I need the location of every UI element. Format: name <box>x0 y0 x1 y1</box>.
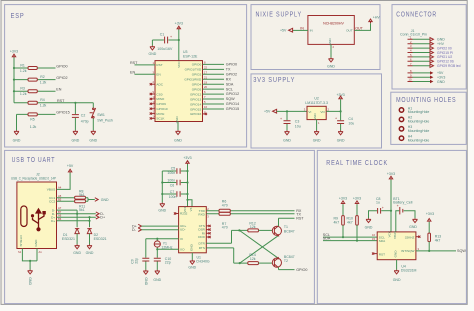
svg-text:32KHZ: 32KHZ <box>405 235 415 239</box>
pin names U3 left <box>156 63 167 121</box>
svg-text:GND: GND <box>153 278 161 282</box>
power +3V3 (3v3 out) <box>336 93 344 99</box>
wire T1 collector to RST <box>279 218 295 226</box>
svg-text:+3V3: +3V3 <box>10 50 18 54</box>
svg-text:SQW: SQW <box>226 97 235 101</box>
svg-text:1.2k: 1.2k <box>30 125 37 129</box>
wire U3 gnd <box>177 122 179 131</box>
svg-text:GPIO4: GPIO4 <box>192 83 202 87</box>
svg-text:R4: R4 <box>40 98 45 102</box>
svg-text:GND: GND <box>337 138 345 142</box>
svg-text:R2: R2 <box>40 75 45 79</box>
svg-text:C6: C6 <box>170 183 175 187</box>
svg-text:22: 22 <box>204 65 207 69</box>
svg-text:XO: XO <box>180 247 185 251</box>
node junction C3 <box>286 110 288 112</box>
svg-text:RST: RST <box>379 252 385 256</box>
wire OUT to HV <box>354 23 370 30</box>
svg-text:A7: A7 <box>58 206 62 210</box>
svg-text:17: 17 <box>204 70 207 74</box>
svg-text:GPIO0: GPIO0 <box>192 63 202 67</box>
wire C1 right <box>168 39 179 41</box>
ic U4 DS3231M body <box>377 232 416 272</box>
svg-text:RST: RST <box>57 99 65 103</box>
label GPIO2 <box>56 76 67 80</box>
svg-text:C4: C4 <box>348 117 353 121</box>
ground D1 <box>73 244 81 255</box>
svg-text:A1: A1 <box>39 250 43 254</box>
svg-text:ADC: ADC <box>156 83 163 87</box>
node junction SDA <box>356 240 358 242</box>
svg-text:C3: C3 <box>295 120 300 124</box>
pin R232 nc <box>174 212 179 214</box>
label +5V in <box>280 28 293 32</box>
node junction Dm <box>76 213 78 215</box>
node junction R12 in <box>238 229 240 231</box>
hole H4 <box>399 135 429 143</box>
svg-text:R3: R3 <box>20 87 25 91</box>
svg-text:GND: GND <box>158 209 166 213</box>
wire +5V to VI <box>277 110 307 112</box>
wire C3 stub <box>286 111 288 120</box>
power +3V3 rtc vcc <box>387 172 395 180</box>
svg-text:VBAT: VBAT <box>393 231 397 239</box>
svg-text:GPIO2: GPIO2 <box>226 72 237 76</box>
svg-text:RST: RST <box>130 61 138 65</box>
svg-text:C5: C5 <box>171 167 176 171</box>
svg-text:GPIO15: GPIO15 <box>190 107 201 111</box>
svg-text:470: 470 <box>222 226 228 230</box>
svg-text:GND: GND <box>13 139 21 143</box>
svg-text:U2: U2 <box>314 96 319 100</box>
battery BT1 <box>393 197 412 214</box>
svg-text:GPIO2 00: GPIO2 00 <box>437 46 452 50</box>
label RST uart <box>296 216 304 220</box>
svg-text:GND: GND <box>89 139 97 143</box>
wire C1 left to gnd <box>152 40 164 46</box>
wire U2 gnd <box>316 120 318 131</box>
wire R13 bottom <box>428 242 430 251</box>
svg-text:GND: GND <box>394 250 398 258</box>
svg-text:SDA: SDA <box>226 82 234 86</box>
wire R12 to T1 <box>259 229 273 231</box>
ic U1 CH340G body <box>179 207 210 264</box>
ground C10 <box>153 270 161 282</box>
svg-text:MISO: MISO <box>156 97 165 101</box>
crystal Y1 12MHz <box>154 239 173 250</box>
svg-text:CS0: CS0 <box>156 92 162 96</box>
wire UD- <box>142 229 179 231</box>
wire CC join <box>86 198 95 202</box>
wire VBUS to +5V <box>57 173 71 190</box>
node junction R14 in <box>239 262 241 264</box>
svg-text:GPIO0: GPIO0 <box>226 63 237 67</box>
svg-text:C2: C2 <box>81 113 86 117</box>
svg-text:RST: RST <box>296 216 304 220</box>
svg-text:GPIO9: GPIO9 <box>156 102 166 106</box>
label SQW <box>457 249 466 253</box>
svg-text:GND: GND <box>101 198 109 202</box>
ground C3 <box>283 130 291 142</box>
svg-text:SW1: SW1 <box>97 113 105 117</box>
wire EN to pin <box>130 70 155 74</box>
node junction R2 <box>13 79 15 81</box>
usb trident icon <box>31 209 46 231</box>
svg-text:GPIO0: GPIO0 <box>296 268 307 272</box>
svg-text:GPIO12: GPIO12 <box>190 92 201 96</box>
wire C2 to gnd <box>74 118 76 130</box>
diode D2 ESD321 <box>87 229 106 241</box>
ground C9 <box>143 270 148 286</box>
node junction C2 <box>74 102 76 104</box>
svg-text:CC2: CC2 <box>49 199 55 203</box>
svg-text:INT/SQW: INT/SQW <box>401 249 414 253</box>
svg-text:100n: 100n <box>167 171 175 175</box>
node junction R1 <box>13 67 15 69</box>
svg-text:CH340G: CH340G <box>196 260 210 264</box>
svg-text:VCC: VCC <box>183 205 187 212</box>
wire IN <box>293 26 308 30</box>
svg-text:EN: EN <box>56 88 61 92</box>
svg-text:22p: 22p <box>165 261 171 265</box>
svg-text:R1: R1 <box>20 63 25 67</box>
capacitor C2 <box>72 113 89 123</box>
resistor R3 <box>20 87 37 97</box>
svg-text:+: + <box>335 117 337 121</box>
wire shield join <box>22 249 37 270</box>
svg-text:19: 19 <box>204 80 207 84</box>
svg-text:10u: 10u <box>295 124 301 128</box>
svg-text:VCC: VCC <box>177 60 181 67</box>
ground J2 <box>28 270 33 286</box>
resistor R12 <box>248 222 259 232</box>
svg-text:IN: IN <box>300 26 304 30</box>
svg-text:VBUS: VBUS <box>47 188 55 192</box>
wire R10 bottom <box>356 225 358 241</box>
ground under SW1 <box>89 130 97 142</box>
pin numbers U3 right <box>204 61 207 114</box>
svg-text:+5V: +5V <box>67 164 74 168</box>
wire R1 row <box>14 67 56 69</box>
power +3V3 R13 <box>426 212 434 222</box>
svg-text:GPIO2: GPIO2 <box>192 73 202 77</box>
svg-text:T2: T2 <box>284 259 288 263</box>
svg-text:+5V: +5V <box>280 29 287 33</box>
svg-text:1u: 1u <box>376 201 380 205</box>
wire C2 stub <box>74 103 76 114</box>
wire SW1 stub <box>92 103 94 130</box>
label GPIO0 <box>56 64 67 68</box>
svg-text:SHIELD: SHIELD <box>19 235 23 247</box>
wire BT1 gnd <box>404 211 415 219</box>
label EN <box>56 88 61 92</box>
node junction Y1 bottom <box>156 248 158 250</box>
svg-text:ESP-12E: ESP-12E <box>183 55 198 59</box>
wire rtc vcc rail <box>390 180 392 232</box>
svg-text:UD-: UD- <box>180 228 186 232</box>
svg-text:DTR: DTR <box>199 241 206 245</box>
pin GPIO16 nc <box>203 113 208 115</box>
pin names U3 right <box>175 60 202 123</box>
svg-text:GPIO9 RGB led: GPIO9 RGB led <box>437 64 461 68</box>
labels U3 right nets <box>226 63 239 112</box>
svg-text:GND: GND <box>437 38 445 42</box>
pins CS0..SCLK nc <box>150 90 156 120</box>
svg-text:GPIO12 0S: GPIO12 0S <box>437 60 455 64</box>
wire nixie gnd <box>331 44 335 57</box>
svg-text:1.2k: 1.2k <box>40 81 47 85</box>
svg-text:REAL TIME CLOCK: REAL TIME CLOCK <box>326 158 388 167</box>
svg-text:GND: GND <box>283 138 291 142</box>
svg-text:S1: S1 <box>18 250 22 254</box>
node junction C4 <box>340 110 342 112</box>
svg-text:MountingHole: MountingHole <box>408 138 430 142</box>
resistor R6 <box>219 200 230 213</box>
wire C4 stub <box>340 111 342 120</box>
label D+ usb <box>96 215 105 219</box>
svg-text:100u/16V: 100u/16V <box>157 47 173 51</box>
svg-text:20: 20 <box>204 85 207 89</box>
node junction Y1 top <box>156 238 158 240</box>
connector J1 Conn_01x10_Pin <box>400 29 427 82</box>
svg-text:GND: GND <box>327 65 335 69</box>
node junction R3 <box>13 90 15 92</box>
label GND cc <box>95 198 109 202</box>
wire R9 top <box>342 204 344 215</box>
usb-c pill icon <box>21 206 27 227</box>
svg-text:12k: 12k <box>250 225 256 229</box>
label RX <box>296 209 302 213</box>
wire TXD row <box>206 207 294 211</box>
svg-text:MountingHole: MountingHole <box>408 129 430 133</box>
wire C8 left gnd <box>369 211 378 219</box>
resistor R7 <box>219 212 230 229</box>
block MOUNTING HOLES frame <box>391 92 466 144</box>
svg-text:GND: GND <box>437 80 445 84</box>
svg-text:100n: 100n <box>167 179 175 183</box>
resistor R13 <box>428 233 441 242</box>
svg-text:GPIO1 U2: GPIO1 U2 <box>437 55 452 59</box>
svg-text:GND: GND <box>174 139 182 143</box>
svg-text:SDA: SDA <box>323 237 331 241</box>
capacitor C9 <box>131 258 150 264</box>
svg-text:1.2k: 1.2k <box>20 69 27 73</box>
label D- usb <box>96 212 105 216</box>
svg-text:DS3231M: DS3231M <box>401 268 417 272</box>
svg-text:GND: GND <box>144 277 148 285</box>
wire R2 row <box>14 79 56 81</box>
node junction SCL <box>342 236 344 238</box>
ground caps <box>158 203 166 213</box>
resistor R1 <box>20 63 37 73</box>
svg-text:RTS: RTS <box>199 246 205 250</box>
hole H1 <box>399 106 429 114</box>
wire VBAT <box>396 211 400 232</box>
svg-text:3V3 SUPPLY: 3V3 SUPPLY <box>253 75 295 84</box>
wire U4 gnd <box>396 260 398 270</box>
svg-text:+3V3: +3V3 <box>339 197 347 201</box>
svg-text:GPIO10: GPIO10 <box>156 107 167 111</box>
svg-text:GND: GND <box>72 139 80 143</box>
node junction c7r <box>186 193 188 195</box>
wire T2 collector to GPIO0 <box>279 267 295 269</box>
svg-text:BC847: BC847 <box>284 229 295 233</box>
svg-text:GND: GND <box>34 239 38 247</box>
wires D rows <box>57 210 96 221</box>
svg-text:GPIO1/TXD: GPIO1/TXD <box>185 68 202 72</box>
svg-text:Battery_Cell: Battery_Cell <box>393 201 412 205</box>
power +3V3 (ESP VCC) <box>175 22 183 30</box>
svg-text:5k1: 5k1 <box>79 193 85 197</box>
svg-text:5k1: 5k1 <box>79 208 85 212</box>
wire emitter cross T2 <box>239 230 278 258</box>
wire CC1 <box>57 197 75 199</box>
svg-text:USB TO UART: USB TO UART <box>12 155 56 164</box>
svg-text:16: 16 <box>372 233 375 237</box>
node junction c6r <box>186 181 188 183</box>
ground under U3 <box>174 130 182 142</box>
ground U2 <box>313 130 321 142</box>
wire U1 gnd <box>191 253 193 260</box>
block USB TO UART frame <box>5 150 315 303</box>
svg-text:SQW: SQW <box>457 249 466 253</box>
resistor R14 <box>248 253 259 264</box>
wire VCC vertical <box>178 30 180 61</box>
labels J1 nets <box>430 38 461 84</box>
svg-text:EN: EN <box>130 70 135 74</box>
resistor R10 <box>347 216 359 226</box>
svg-text:SCL: SCL <box>226 87 233 91</box>
hole H2 <box>399 116 429 124</box>
node junction v3 <box>186 199 188 201</box>
svg-text:15: 15 <box>372 237 375 241</box>
wire emitter cross T1 <box>240 236 279 263</box>
wire R13 top <box>428 222 430 233</box>
wire VO to +3V3 <box>326 99 340 111</box>
svg-text:D+: D+ <box>100 216 105 220</box>
ground under C1 <box>149 46 157 56</box>
power +3V3 ch340 <box>183 156 191 164</box>
power +3V3 R9 <box>339 197 347 205</box>
wire UD+ <box>142 225 179 227</box>
resistor R4 <box>28 98 47 108</box>
pin 32KHZ nc <box>416 236 421 238</box>
svg-text:22p: 22p <box>135 258 139 264</box>
svg-text:+3V3: +3V3 <box>387 172 395 176</box>
pin names J2 <box>19 188 56 247</box>
svg-text:VI: VI <box>308 110 311 114</box>
svg-text:SCLK: SCLK <box>156 117 165 121</box>
connector J2 USB_C_Receptacle body <box>11 173 57 249</box>
power +3V3 R10 <box>353 197 361 205</box>
wire R3 row <box>14 90 56 92</box>
pin RST nc <box>372 253 377 255</box>
svg-text:MOSI: MOSI <box>156 112 164 116</box>
svg-text:10u: 10u <box>348 122 354 126</box>
ic U3 ESP-12E body <box>155 50 203 121</box>
resistor R2 <box>28 75 47 85</box>
capacitor C1 polarized <box>157 32 173 50</box>
pins CTS DSR RI DCD nc <box>206 225 210 238</box>
ground under C2 <box>72 130 80 142</box>
wire SCL row <box>323 233 377 237</box>
svg-text:EN: EN <box>156 73 160 77</box>
ground C8 <box>365 218 373 229</box>
diode D1 ESD321 <box>62 229 79 241</box>
transistor T2 BC847 <box>272 255 294 268</box>
wire XO row <box>157 248 178 250</box>
capacitor C7 <box>169 190 180 199</box>
capacitor C10 <box>154 257 171 265</box>
svg-text:+: + <box>280 117 282 121</box>
wire C9 column <box>145 239 147 258</box>
wire SDA row <box>323 237 377 241</box>
svg-text:1.2k: 1.2k <box>40 104 47 108</box>
ground C4 <box>337 130 345 142</box>
label D+ ch340 <box>132 224 142 228</box>
svg-text:+: + <box>170 35 172 39</box>
node junction C1 <box>178 39 180 41</box>
svg-text:GPIO15 PI: GPIO15 PI <box>437 51 453 55</box>
svg-text:10: 10 <box>409 78 412 82</box>
svg-text:1.2k: 1.2k <box>20 92 27 96</box>
wires U3 right rows <box>203 64 225 109</box>
wire C9 gnd <box>145 262 147 270</box>
wire C10 column <box>156 249 158 257</box>
svg-text:GPIO14: GPIO14 <box>226 102 239 106</box>
svg-text:GPIO2: GPIO2 <box>56 76 67 80</box>
svg-text:GPIO14: GPIO14 <box>190 102 201 106</box>
wires J1 rows <box>413 39 431 81</box>
wire D2 stub <box>89 221 91 227</box>
svg-text:GPIO15: GPIO15 <box>226 107 239 111</box>
label GPIO15 <box>56 111 69 115</box>
wire R5 row <box>17 114 56 130</box>
svg-text:VCC: VCC <box>388 230 392 237</box>
svg-text:MountingHole: MountingHole <box>408 110 430 114</box>
wire R9 bottom <box>342 225 344 237</box>
label RST <box>57 99 65 103</box>
svg-text:4k7: 4k7 <box>435 238 441 242</box>
svg-text:GND: GND <box>149 52 157 56</box>
wire R14 to T2 <box>259 262 273 264</box>
ground nixie <box>327 58 335 69</box>
wire cap rail left <box>162 171 187 203</box>
wire C8 to rail <box>381 210 391 212</box>
node junction c6l <box>161 181 163 183</box>
svg-text:IN: IN <box>310 29 313 33</box>
node junction c5r <box>186 170 188 172</box>
label D- ch340 <box>132 228 142 232</box>
svg-text:+HV: +HV <box>373 16 381 20</box>
svg-text:12k: 12k <box>250 257 256 261</box>
ground under R5 <box>13 130 21 142</box>
resistor R8 <box>75 189 86 199</box>
svg-text:GND: GND <box>189 243 193 251</box>
svg-text:4k7: 4k7 <box>334 220 340 224</box>
pin ADC nc <box>150 80 155 85</box>
svg-text:+3V3: +3V3 <box>353 197 361 201</box>
svg-text:21: 21 <box>204 75 207 79</box>
capacitor C8 <box>376 197 384 214</box>
svg-text:D+: D+ <box>51 219 55 223</box>
svg-text:USB_C_Receptacle_USB2.0_14P: USB_C_Receptacle_USB2.0_14P <box>11 177 57 181</box>
regulator U2 LM1117DT-3.3 <box>304 96 330 124</box>
svg-text:GND: GND <box>393 278 401 282</box>
hole H3 <box>399 125 429 133</box>
ground D2 <box>86 244 94 255</box>
wire RXD row <box>206 214 294 219</box>
